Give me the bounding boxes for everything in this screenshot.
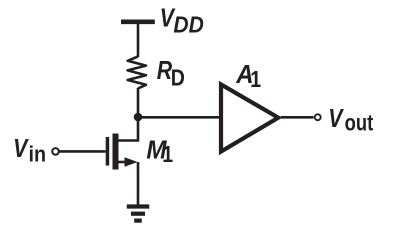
wire resistor to node bbox=[137, 88, 140, 120]
transistor M1 channel bar bbox=[113, 134, 119, 170]
drain lead bbox=[118, 117, 138, 141]
resistor RD bbox=[128, 57, 146, 89]
label M1 bbox=[146, 136, 173, 168]
VDD supply bar bbox=[121, 19, 155, 24]
svg-text:out: out bbox=[345, 111, 374, 136]
source lead bbox=[118, 161, 131, 164]
svg-text:V: V bbox=[328, 104, 344, 134]
ground symbol bbox=[127, 207, 150, 221]
input terminal circle bbox=[52, 148, 59, 155]
svg-text:D: D bbox=[171, 65, 185, 91]
output terminal circle bbox=[315, 114, 321, 120]
label Vout bbox=[328, 104, 373, 136]
svg-text:1: 1 bbox=[250, 67, 261, 93]
node (junction dot) bbox=[134, 113, 143, 122]
wire VDD bar to resistor bbox=[137, 22, 140, 57]
label A1 bbox=[235, 60, 261, 92]
label RD bbox=[157, 56, 185, 91]
wire amplifier output bbox=[281, 116, 314, 119]
transistor M1 gate bar bbox=[106, 137, 110, 166]
svg-text:DD: DD bbox=[173, 12, 203, 38]
svg-text:V: V bbox=[13, 134, 29, 164]
label VDD bbox=[160, 4, 204, 38]
op-amp A1 (buffer triangle) bbox=[221, 84, 278, 151]
wire input terminal to gate bbox=[59, 150, 106, 153]
source arrowhead bbox=[125, 157, 138, 167]
label Vin bbox=[13, 134, 46, 167]
wire source to ground bbox=[137, 162, 140, 206]
wire node to amplifier input bbox=[138, 116, 221, 119]
svg-text:R: R bbox=[157, 56, 172, 86]
svg-text:1: 1 bbox=[162, 142, 173, 168]
svg-text:in: in bbox=[29, 143, 47, 167]
